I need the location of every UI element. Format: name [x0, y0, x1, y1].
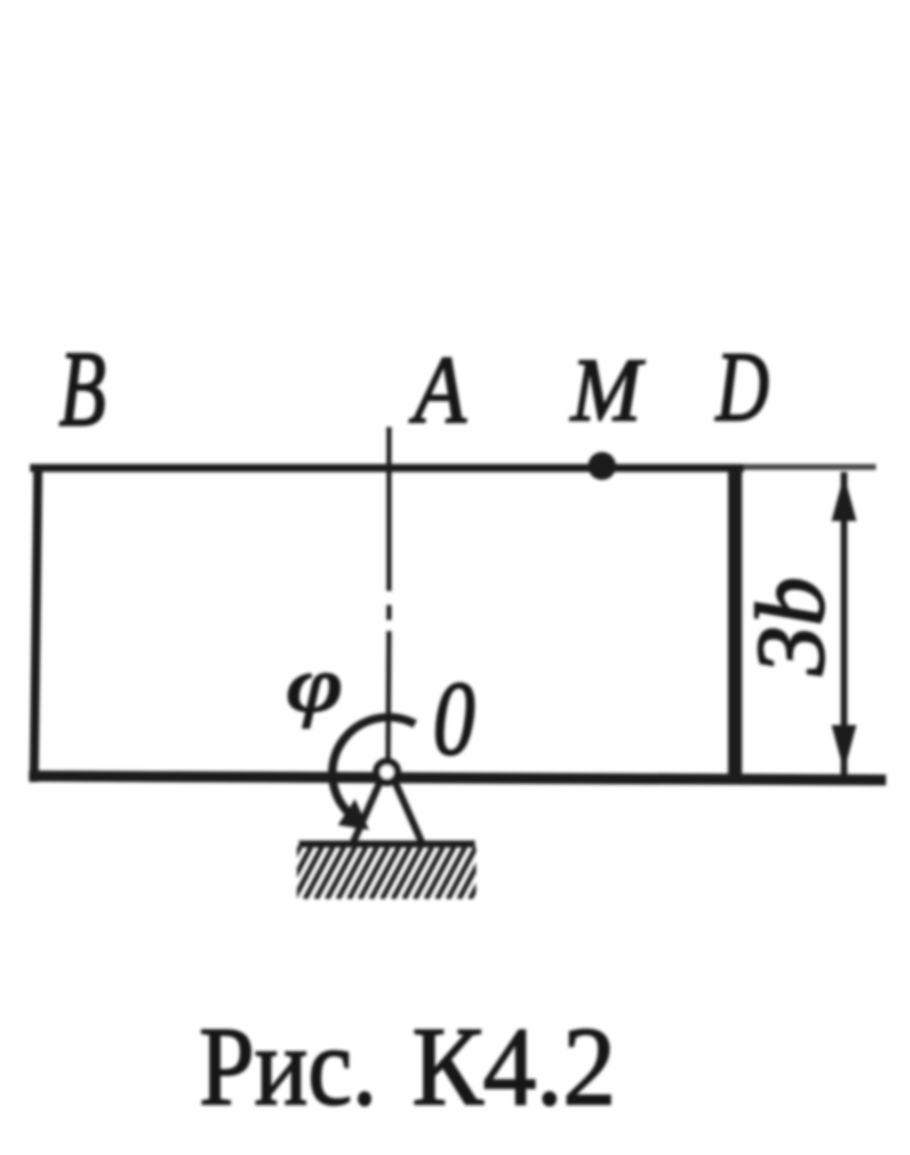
rotation arc phi	[332, 717, 415, 813]
axis line solid lower segment	[388, 631, 389, 768]
support base line	[299, 841, 475, 848]
hinge circle O	[377, 762, 398, 783]
caption Рис. К4.2	[199, 1005, 616, 1129]
dimension arrow up	[832, 475, 857, 521]
svg-text:К4.2: К4.2	[412, 1005, 616, 1129]
support left leg	[352, 782, 380, 845]
svg-text:Рис.: Рис.	[199, 1005, 377, 1129]
plate right edge	[728, 464, 742, 781]
plate left edge	[34, 464, 38, 782]
svg-text:0: 0	[433, 660, 475, 777]
svg-text:φ: φ	[286, 641, 342, 728]
axis line solid upper segment	[387, 427, 392, 591]
dimension line 3b	[841, 472, 848, 776]
svg-text:A: A	[409, 336, 467, 443]
point M dot	[588, 452, 616, 480]
support right leg	[395, 782, 423, 845]
rotation arc arrowhead	[338, 799, 369, 830]
svg-text:M: M	[569, 341, 646, 440]
svg-text:3b: 3b	[737, 577, 845, 676]
axis line dash	[387, 605, 392, 620]
dimension extension line top	[744, 464, 876, 470]
plate bottom edge	[29, 776, 886, 780]
dimension arrow down	[832, 725, 857, 771]
plate top edge	[30, 464, 744, 472]
svg-text:B: B	[59, 330, 106, 449]
ground hatching	[272, 847, 498, 899]
svg-text:D: D	[715, 331, 769, 442]
